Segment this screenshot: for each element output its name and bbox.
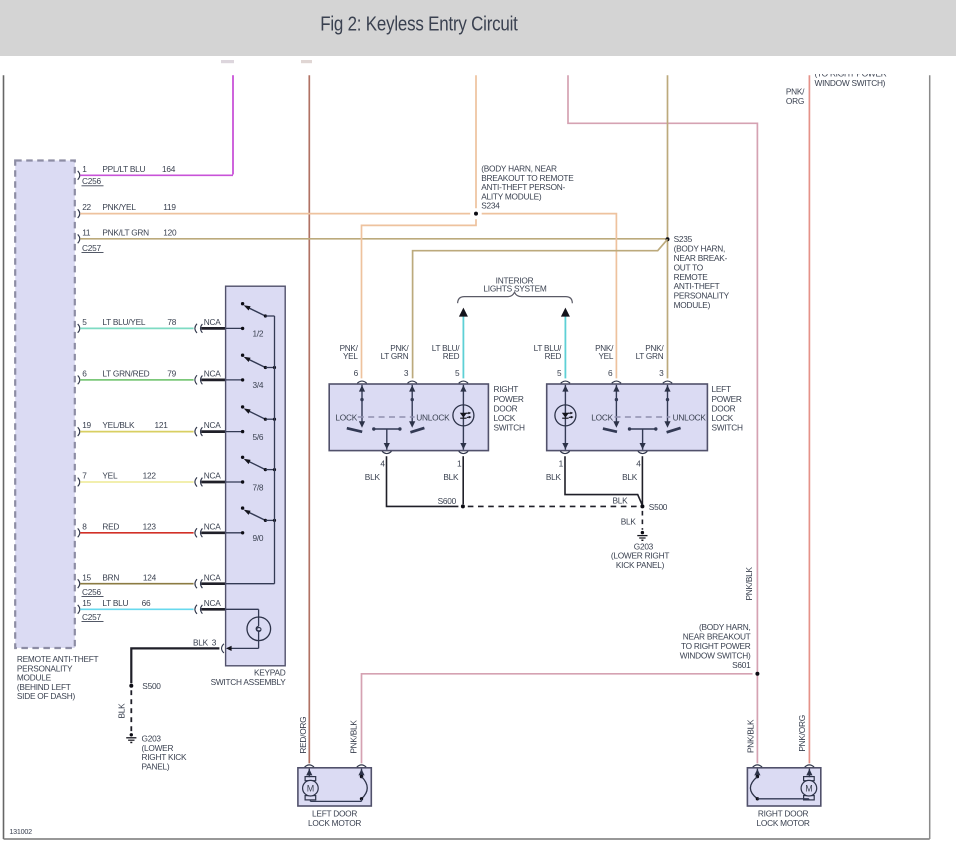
svg-text:SWITCH ASSEMBLY: SWITCH ASSEMBLY (211, 677, 287, 687)
svg-text:S600: S600 (438, 496, 457, 506)
splice S500 (640, 504, 644, 508)
pin 4 (382, 451, 391, 453)
svg-text:PNK/BLK: PNK/BLK (349, 720, 359, 754)
splice S500 left (129, 684, 133, 688)
svg-text:SIDE OF DASH): SIDE OF DASH) (17, 691, 76, 701)
wire LT BLU/YEL 78 (80, 327, 193, 329)
svg-text:PANEL): PANEL) (142, 762, 170, 772)
svg-text:3: 3 (404, 368, 409, 378)
svg-text:BLK: BLK (365, 472, 381, 482)
switch contact (667, 385, 669, 422)
connector NCA (195, 528, 197, 537)
svg-text:S234: S234 (481, 201, 500, 211)
svg-text:C256: C256 (82, 587, 101, 597)
svg-text:LT BLU: LT BLU (102, 598, 128, 608)
wire BLK S500 to G203 (dashed) (130, 690, 132, 732)
svg-text:15: 15 (82, 572, 91, 582)
svg-text:RED/ORG: RED/ORG (298, 717, 308, 754)
svg-text:1: 1 (559, 458, 564, 468)
lock blade (347, 428, 362, 432)
wire PNK/YEL S234 to left switch pin6 (482, 214, 617, 379)
svg-text:BLK: BLK (622, 472, 638, 482)
ground G203 left (130, 733, 133, 736)
wire BLK right switch pin4 to S600 (387, 456, 459, 506)
unlock blade (410, 428, 424, 432)
svg-text:124: 124 (143, 572, 157, 582)
svg-text:5: 5 (557, 368, 562, 378)
svg-text:LIGHTS SYSTEM: LIGHTS SYSTEM (483, 284, 546, 294)
switch contact (615, 385, 617, 422)
pin 5 (459, 381, 468, 383)
connector arcs (753, 765, 762, 767)
module pin 6 LT GRN/RED (78, 376, 80, 385)
svg-text:5: 5 (82, 317, 87, 327)
module pin 22 PNK/YEL (78, 209, 80, 218)
svg-text:6: 6 (82, 369, 87, 379)
pin 5 (561, 381, 570, 383)
svg-text:POWER: POWER (494, 394, 524, 404)
module pin 15 LT BLU (78, 605, 80, 614)
svg-text:PPL/LT BLU: PPL/LT BLU (102, 164, 145, 174)
svg-text:22: 22 (82, 202, 91, 212)
wire PNK/YEL vertical (to S234) (475, 75, 477, 208)
svg-text:RED: RED (545, 352, 562, 361)
svg-text:M: M (307, 783, 314, 793)
svg-text:MODULE): MODULE) (674, 300, 711, 310)
pin 3 (408, 381, 417, 383)
linkage arc (756, 775, 758, 777)
wire YEL/BLK 121 (80, 431, 193, 433)
wire PNK/YEL 119 (80, 213, 470, 215)
module pin 5 LT BLU/YEL (78, 324, 80, 333)
svg-text:RED: RED (443, 352, 460, 361)
svg-text:NCA: NCA (204, 572, 221, 582)
LED indicator (564, 385, 566, 450)
wire LT BLU 66 (80, 608, 193, 610)
wire LT GRN/RED 79 (80, 379, 193, 381)
wire LT BLU/RED right switch pin5 up-arrow (462, 316, 464, 378)
wire PNK/LT GRN S235 branch to right switch pin3 (413, 239, 668, 378)
linkage arc (361, 775, 363, 777)
svg-text:LOCK: LOCK (712, 413, 734, 423)
wire PNK/YEL S234 branch to right switch pin6 (362, 219, 477, 378)
wire PPL/LT BLU vertical (232, 75, 234, 174)
svg-text:BLK: BLK (546, 472, 562, 482)
pin 6 (612, 381, 621, 383)
svg-text:119: 119 (163, 202, 176, 212)
keypad switch 3/4 (226, 379, 243, 381)
svg-text:LT BLU/YEL: LT BLU/YEL (102, 317, 145, 327)
keypad switch assembly box (226, 286, 286, 666)
keypad lamp (226, 608, 259, 610)
splice S235 (666, 237, 670, 241)
svg-text:NCA: NCA (204, 471, 221, 481)
svg-text:LOCK MOTOR: LOCK MOTOR (308, 818, 361, 828)
svg-text:LEFT: LEFT (712, 384, 731, 394)
svg-text:DOOR: DOOR (494, 403, 518, 413)
wire BLK left switch pin4 to S500 (641, 456, 643, 504)
svg-text:7: 7 (82, 471, 87, 481)
svg-text:Fig 2: Keyless Entry Circuit: Fig 2: Keyless Entry Circuit (320, 12, 518, 35)
svg-text:M: M (805, 783, 812, 793)
svg-text:4: 4 (636, 458, 641, 468)
connector NCA (195, 579, 197, 588)
svg-text:BLK: BLK (193, 638, 209, 648)
svg-text:RIGHT: RIGHT (494, 384, 519, 394)
connector NCA (195, 375, 197, 384)
svg-text:PNK/BLK: PNK/BLK (746, 719, 756, 753)
wire BLK S600 to S500 (dashed) (468, 505, 638, 507)
connector keypad BLK exit (222, 644, 224, 653)
svg-text:DOOR: DOOR (712, 403, 736, 413)
motor M (804, 777, 815, 781)
svg-text:C257: C257 (82, 612, 101, 622)
svg-text:11: 11 (82, 227, 91, 237)
svg-text:123: 123 (143, 521, 157, 531)
svg-text:S500: S500 (142, 681, 161, 691)
LED indicator (462, 385, 464, 450)
svg-text:S601: S601 (732, 660, 751, 670)
svg-text:SWITCH: SWITCH (712, 423, 743, 433)
svg-text:LOCK: LOCK (335, 412, 357, 422)
svg-text:C257: C257 (82, 243, 101, 253)
svg-text:120: 120 (163, 227, 177, 237)
svg-text:YEL: YEL (343, 352, 358, 361)
svg-text:164: 164 (162, 164, 176, 174)
svg-text:LOCK: LOCK (591, 412, 613, 422)
wire PPL/LT BLU 164 (80, 174, 233, 176)
svg-text:PNK/LT GRN: PNK/LT GRN (102, 227, 149, 237)
right door lock motor (747, 768, 820, 806)
svg-text:4: 4 (380, 458, 385, 468)
svg-text:NCA: NCA (204, 420, 221, 430)
svg-text:PNK/ORG: PNK/ORG (797, 715, 807, 752)
svg-text:1/2: 1/2 (253, 329, 264, 339)
svg-text:C256: C256 (82, 176, 101, 186)
keypad switch 9/0 (226, 532, 243, 534)
keypad switch 1/2 (226, 327, 243, 329)
pin 4 (638, 451, 647, 453)
svg-text:BLK: BLK (621, 516, 637, 526)
svg-text:121: 121 (155, 420, 169, 430)
svg-text:3/4: 3/4 (253, 380, 264, 390)
svg-text:1: 1 (82, 164, 87, 174)
svg-text:122: 122 (143, 471, 157, 481)
svg-text:LT GRN: LT GRN (381, 352, 409, 361)
svg-text:79: 79 (167, 369, 176, 379)
keypad switch 7/8 (226, 481, 243, 483)
svg-text:8: 8 (82, 521, 87, 531)
connector NCA (195, 324, 197, 333)
connector NCA (195, 605, 197, 614)
svg-text:5: 5 (455, 368, 460, 378)
svg-text:S500: S500 (649, 502, 668, 512)
lock blade (603, 429, 617, 432)
pin 1 (560, 451, 569, 453)
module pin 19 YEL/BLK (78, 427, 80, 436)
svg-text:15: 15 (82, 598, 91, 608)
connector NCA (195, 477, 197, 486)
connector arcs (305, 765, 314, 767)
svg-text:ORG: ORG (786, 96, 804, 106)
wire BLK left switch pin1 to S500 (565, 456, 642, 505)
svg-text:WINDOW SWITCH): WINDOW SWITCH) (815, 78, 886, 88)
svg-text:NCA: NCA (204, 317, 221, 327)
splice S234 (474, 212, 478, 216)
wire PNK/BLK from top (568, 75, 757, 763)
right power door lock switch (329, 384, 488, 451)
svg-text:5/6: 5/6 (253, 432, 264, 442)
switch contact (411, 385, 413, 422)
svg-text:LOCK: LOCK (494, 413, 516, 423)
pin 1 (459, 451, 468, 453)
svg-text:3: 3 (659, 368, 664, 378)
svg-text:BRN: BRN (102, 572, 119, 582)
pin 3 (663, 381, 672, 383)
module pin 1 PPL/LT BLU (78, 171, 80, 180)
svg-text:POWER: POWER (712, 394, 742, 404)
ground G203 right (641, 531, 644, 534)
svg-text:19: 19 (82, 420, 91, 430)
unlock blade (667, 428, 681, 432)
left door lock motor (298, 768, 371, 806)
svg-text:SWITCH: SWITCH (494, 423, 525, 433)
svg-text:KICK PANEL): KICK PANEL) (616, 560, 665, 570)
svg-text:BLK: BLK (613, 496, 629, 506)
wire RED/ORG vertical (308, 75, 310, 763)
wire LT BLU/RED left switch pin5 up-arrow (564, 316, 566, 378)
wire BLK right switch pin1 to S600 (462, 456, 464, 504)
svg-text:7/8: 7/8 (253, 482, 264, 492)
left power door lock switch (547, 384, 708, 451)
svg-text:YEL/BLK: YEL/BLK (102, 420, 135, 430)
svg-text:9/0: 9/0 (253, 533, 264, 543)
wire PNK/ORG vertical (808, 75, 810, 763)
svg-text:NCA: NCA (204, 521, 221, 531)
svg-text:78: 78 (167, 317, 176, 327)
svg-text:YEL: YEL (102, 471, 118, 481)
svg-text:131002: 131002 (9, 827, 32, 836)
svg-text:RED: RED (102, 521, 119, 531)
module: remote anti-theft personality module (15, 161, 75, 649)
keypad bus (274, 316, 276, 584)
switch contact (361, 385, 363, 422)
wire BLK S500 to G203 (dashed) (641, 511, 643, 530)
svg-text:LT GRN: LT GRN (636, 352, 664, 361)
svg-text:6: 6 (354, 368, 359, 378)
wire PNK/BLK S601 to left door motor (362, 674, 753, 764)
svg-text:PNK/BLK: PNK/BLK (744, 566, 754, 600)
brace (458, 292, 573, 303)
wire RED 123 (80, 532, 193, 534)
module pin 7 YEL (78, 478, 80, 487)
wire BRN 124 (80, 583, 193, 585)
svg-text:BLK: BLK (117, 703, 127, 719)
wire PNK/LT GRN 120 (80, 238, 665, 240)
svg-text:LT GRN/RED: LT GRN/RED (102, 369, 149, 379)
svg-text:NCA: NCA (204, 369, 221, 379)
svg-text:LOCK MOTOR: LOCK MOTOR (757, 818, 810, 828)
svg-text:PNK/YEL: PNK/YEL (102, 202, 136, 212)
wire YEL 122 (80, 481, 193, 483)
svg-text:6: 6 (608, 368, 613, 378)
common contact (374, 428, 400, 430)
svg-text:BLK: BLK (443, 472, 459, 482)
svg-text:PNK/: PNK/ (786, 87, 805, 97)
splice S600 (461, 504, 465, 508)
svg-text:YEL: YEL (598, 352, 613, 361)
svg-text:UNLOCK: UNLOCK (673, 412, 707, 422)
module pin 11 PNK/LT GRN (78, 234, 80, 243)
wire PNK/LT GRN vertical (through S235) (667, 75, 669, 378)
keypad switch 5/6 (226, 431, 243, 433)
svg-text:1: 1 (457, 458, 462, 468)
connector NCA (195, 427, 197, 436)
svg-text:3: 3 (212, 638, 217, 648)
svg-text:UNLOCK: UNLOCK (416, 412, 450, 422)
pin 6 (357, 381, 366, 383)
module pin 15 BRN (78, 579, 80, 588)
module pin 8 RED (78, 528, 80, 537)
svg-text:NCA: NCA (204, 598, 221, 608)
common contact (630, 428, 656, 430)
motor M (305, 777, 316, 781)
svg-text:66: 66 (142, 598, 151, 608)
